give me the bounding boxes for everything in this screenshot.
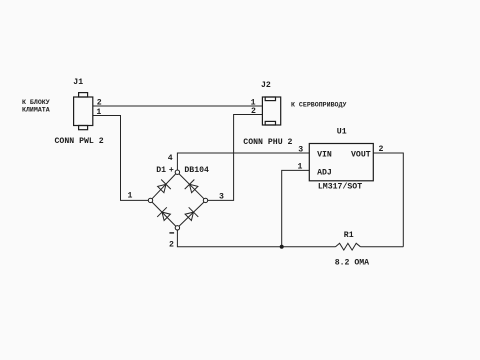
resistor R1 bbox=[336, 243, 361, 250]
wire U1 VOUT down to R1 right end bbox=[373, 153, 403, 247]
diode D1d lower-right arm bbox=[183, 207, 198, 222]
wire J1 pin2 to J2 pin1 bbox=[93, 105, 262, 107]
svg-text:CONN PWL 2: CONN PWL 2 bbox=[55, 137, 104, 146]
svg-text:КЛИМАТА: КЛИМАТА bbox=[22, 107, 50, 114]
junction dot ADJ/bottom net bbox=[280, 245, 284, 249]
node 2 terminal (bottom -) bbox=[175, 226, 179, 230]
svg-text:4: 4 bbox=[168, 154, 173, 163]
svg-text:1: 1 bbox=[297, 163, 302, 172]
wire J1 pin1 to bridge node 1 bbox=[93, 116, 148, 201]
connector J2 bbox=[262, 97, 280, 125]
net name К БЛОКУ КЛИМАТА bbox=[22, 99, 50, 114]
wire bridge node 2 along bottom to R1 left end bbox=[177, 230, 335, 247]
svg-text:D1: D1 bbox=[156, 166, 166, 175]
diode D1a upper-left arm bbox=[156, 180, 171, 195]
svg-text:К БЛОКУ: К БЛОКУ bbox=[22, 99, 50, 106]
node 4 terminal (top +) bbox=[175, 170, 179, 174]
diode D1b upper-right arm bbox=[185, 180, 200, 195]
svg-text:3: 3 bbox=[219, 192, 224, 201]
wire U1 ADJ down to bottom net bbox=[282, 170, 310, 246]
connector J1 bbox=[74, 93, 93, 130]
svg-text:2: 2 bbox=[251, 107, 256, 116]
bridge rectifier D1 diamond edges bbox=[152, 174, 204, 226]
node 1 terminal (left) bbox=[148, 198, 152, 202]
svg-text:CONN PHU 2: CONN PHU 2 bbox=[243, 138, 292, 147]
wire bridge node 4 to U1 VIN bbox=[177, 153, 309, 170]
svg-text:U1: U1 bbox=[337, 128, 347, 137]
node 3 terminal (right) bbox=[203, 198, 207, 202]
polarity mark - bbox=[169, 232, 174, 234]
svg-text:VIN: VIN bbox=[317, 151, 332, 160]
regulator U1 body bbox=[309, 144, 373, 181]
svg-text:3: 3 bbox=[298, 145, 303, 154]
svg-text:+: + bbox=[169, 166, 174, 175]
svg-text:VOUT: VOUT bbox=[351, 151, 371, 160]
svg-text:J1: J1 bbox=[73, 78, 83, 87]
wire J2 pin2 to bridge node 3 bbox=[208, 115, 263, 201]
svg-text:DB104: DB104 bbox=[184, 166, 209, 175]
svg-text:2: 2 bbox=[97, 98, 102, 107]
svg-text:J2: J2 bbox=[261, 81, 271, 90]
svg-text:LM317/SOT: LM317/SOT bbox=[318, 182, 362, 192]
wire R1 right end to VOUT drop bbox=[360, 246, 403, 248]
svg-text:1: 1 bbox=[128, 192, 133, 201]
svg-text:2: 2 bbox=[378, 145, 383, 154]
svg-text:8.2 ОМА: 8.2 ОМА bbox=[335, 259, 369, 268]
svg-text:R1: R1 bbox=[344, 231, 354, 240]
svg-text:1: 1 bbox=[96, 108, 101, 117]
svg-text:2: 2 bbox=[169, 240, 174, 249]
svg-text:ADJ: ADJ bbox=[317, 168, 332, 177]
diode D1c lower-left arm bbox=[157, 207, 172, 222]
svg-text:К СЕРВОПРИВОДУ: К СЕРВОПРИВОДУ bbox=[291, 102, 346, 109]
